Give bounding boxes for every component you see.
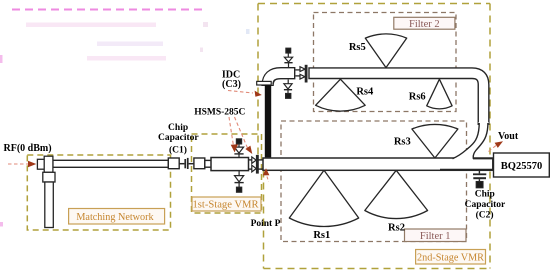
svg-text:Chip: Chip [168, 123, 188, 133]
svg-text:HSMS-285C: HSMS-285C [194, 108, 245, 118]
svg-text:Rs6: Rs6 [409, 92, 426, 103]
svg-text:Chip: Chip [475, 190, 495, 200]
svg-text:Rs4: Rs4 [356, 87, 374, 98]
svg-text:Filter 2: Filter 2 [409, 19, 440, 30]
svg-text:RF(0 dBm): RF(0 dBm) [4, 143, 52, 154]
svg-text:Matching Network: Matching Network [76, 212, 154, 223]
svg-text:Rs5: Rs5 [349, 42, 366, 53]
svg-text:2nd-Stage VMR: 2nd-Stage VMR [417, 253, 484, 264]
svg-text:Filter 1: Filter 1 [420, 231, 451, 242]
svg-text:Vout: Vout [498, 131, 519, 142]
svg-text:Point P: Point P [251, 219, 281, 229]
svg-text:(C2): (C2) [476, 210, 494, 221]
svg-text:BQ25570: BQ25570 [501, 161, 542, 172]
svg-text:1st-Stage VMR: 1st-Stage VMR [192, 199, 259, 210]
svg-text:Capacitor: Capacitor [465, 200, 506, 210]
svg-text:Capacitor: Capacitor [158, 133, 199, 143]
svg-text:(C3): (C3) [222, 79, 241, 90]
svg-text:Rs1: Rs1 [313, 230, 330, 241]
svg-text:(C1): (C1) [169, 144, 187, 155]
svg-text:Rs2: Rs2 [388, 222, 405, 233]
svg-text:Rs3: Rs3 [394, 136, 411, 147]
